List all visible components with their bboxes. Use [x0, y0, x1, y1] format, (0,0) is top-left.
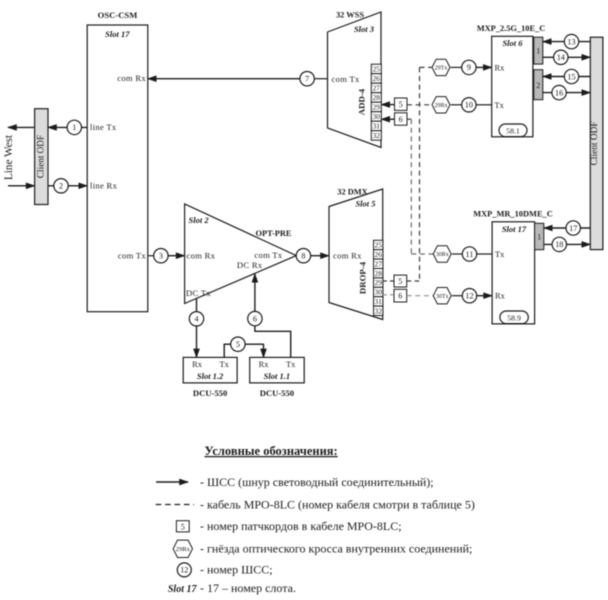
svg-text:15: 15 [567, 72, 575, 81]
svg-text:5: 5 [236, 340, 240, 349]
svg-text:Client ODF: Client ODF [36, 135, 46, 178]
svg-text:com Rx: com Rx [187, 251, 216, 261]
svg-text:Условные обозначения:: Условные обозначения: [205, 444, 338, 458]
svg-text:25: 25 [375, 241, 383, 250]
svg-text:line Tx: line Tx [90, 122, 117, 132]
svg-text:Slot 17: Slot 17 [502, 224, 527, 234]
svg-text:27: 27 [373, 84, 381, 93]
svg-text:11: 11 [466, 250, 474, 259]
svg-text:DROP-4: DROP-4 [358, 261, 368, 294]
svg-text:30: 30 [375, 288, 383, 297]
svg-text:6: 6 [398, 292, 402, 301]
svg-text:29: 29 [373, 103, 381, 112]
svg-text:Line West: Line West [3, 134, 15, 180]
svg-text:10: 10 [465, 101, 473, 110]
svg-text:ADD-4: ADD-4 [357, 88, 367, 115]
svg-text:2: 2 [59, 182, 63, 191]
svg-text:- 17 – номер слота.: - 17 – номер слота. [200, 581, 296, 595]
svg-text:4: 4 [194, 315, 198, 324]
svg-text:MXP_MR_10DME_C: MXP_MR_10DME_C [473, 209, 553, 218]
svg-text:Rx: Rx [495, 292, 506, 301]
svg-text:8: 8 [301, 251, 305, 260]
svg-text:Tx: Tx [495, 250, 505, 259]
svg-text:32: 32 [373, 131, 381, 140]
svg-text:com Rx: com Rx [333, 251, 362, 261]
svg-text:- кабель MPO-8LC (номер кабеля: - кабель MPO-8LC (номер кабеля смотри в … [200, 498, 475, 512]
svg-text:27: 27 [375, 259, 383, 268]
svg-text:Slot 17: Slot 17 [105, 29, 130, 39]
svg-text:DC Tx: DC Tx [186, 288, 211, 298]
svg-text:MXP_2.5G_10E_C: MXP_2.5G_10E_C [477, 24, 546, 33]
svg-text:com Tx: com Tx [332, 74, 361, 84]
svg-text:- номер патчкордов в кабеле MP: - номер патчкордов в кабеле MPO-8LC; [200, 519, 402, 533]
svg-text:DCU-550: DCU-550 [193, 388, 227, 398]
svg-text:Tx: Tx [220, 360, 230, 369]
svg-text:26: 26 [373, 74, 381, 83]
svg-text:- гнёзда оптического кросса вн: - гнёзда оптического кросса внутренних с… [200, 542, 472, 556]
svg-text:12: 12 [180, 566, 188, 575]
svg-text:25: 25 [373, 65, 381, 74]
svg-text:32 WSS: 32 WSS [336, 10, 364, 19]
svg-text:Slot 2: Slot 2 [189, 215, 210, 225]
svg-text:Rx: Rx [259, 360, 270, 369]
svg-text:1: 1 [537, 232, 541, 241]
svg-text:29: 29 [375, 278, 383, 287]
svg-text:- ШСС (шнур световодный соедин: - ШСС (шнур световодный соединительный); [200, 475, 434, 489]
svg-text:com Tx: com Tx [254, 250, 283, 260]
svg-text:Rx: Rx [192, 360, 203, 369]
svg-text:32: 32 [375, 306, 383, 315]
svg-text:14: 14 [557, 53, 565, 62]
svg-text:16: 16 [555, 88, 563, 97]
svg-text:5: 5 [181, 523, 185, 532]
svg-text:OSC-CSM: OSC-CSM [98, 10, 138, 20]
svg-text:32 DMX: 32 DMX [337, 187, 367, 196]
svg-text:2: 2 [536, 81, 540, 90]
svg-text:5: 5 [398, 277, 402, 286]
svg-text:31: 31 [373, 122, 381, 131]
svg-text:30Rx: 30Rx [436, 252, 449, 258]
svg-text:6: 6 [253, 314, 257, 323]
svg-text:5: 5 [399, 100, 403, 109]
svg-text:9: 9 [467, 63, 471, 72]
svg-text:28: 28 [375, 269, 383, 278]
svg-text:Slot 5: Slot 5 [355, 199, 376, 209]
svg-text:line Rx: line Rx [90, 181, 118, 191]
svg-text:Slot 6: Slot 6 [502, 38, 523, 48]
svg-text:- номер ШСС;: - номер ШСС; [200, 562, 273, 576]
svg-text:13: 13 [567, 37, 575, 46]
svg-text:17: 17 [569, 224, 577, 233]
svg-text:58.9: 58.9 [507, 313, 521, 322]
svg-text:29Rx: 29Rx [434, 103, 447, 109]
svg-text:DCU-550: DCU-550 [260, 388, 294, 398]
svg-text:Slot 1.2: Slot 1.2 [197, 371, 224, 381]
svg-text:OPT-PRE: OPT-PRE [256, 229, 292, 238]
svg-text:Tx: Tx [495, 101, 505, 110]
svg-text:7: 7 [305, 74, 309, 83]
svg-text:31: 31 [375, 297, 383, 306]
svg-text:Slot 17: Slot 17 [168, 584, 198, 595]
svg-text:18: 18 [555, 240, 563, 249]
svg-text:58.1: 58.1 [506, 126, 520, 135]
svg-text:Rx: Rx [495, 64, 506, 73]
svg-text:DC Rx: DC Rx [237, 260, 263, 270]
svg-text:30: 30 [373, 112, 381, 121]
svg-text:Client ODF: Client ODF [590, 121, 600, 165]
svg-text:1: 1 [72, 123, 76, 132]
svg-text:1: 1 [536, 46, 540, 55]
svg-text:Slot 1.1: Slot 1.1 [264, 371, 290, 381]
svg-text:3: 3 [159, 251, 163, 260]
svg-text:12: 12 [465, 291, 473, 300]
svg-text:30Tx: 30Tx [436, 294, 449, 300]
svg-text:com Rx: com Rx [117, 73, 146, 83]
svg-text:Tx: Tx [286, 360, 296, 369]
svg-text:com Tx: com Tx [118, 251, 147, 261]
svg-text:28: 28 [373, 93, 381, 102]
svg-text:29Rx: 29Rx [176, 546, 191, 553]
svg-text:Slot 3: Slot 3 [354, 24, 375, 34]
svg-text:29Tx: 29Tx [435, 66, 448, 72]
svg-text:6: 6 [399, 115, 403, 124]
svg-text:26: 26 [375, 250, 383, 259]
